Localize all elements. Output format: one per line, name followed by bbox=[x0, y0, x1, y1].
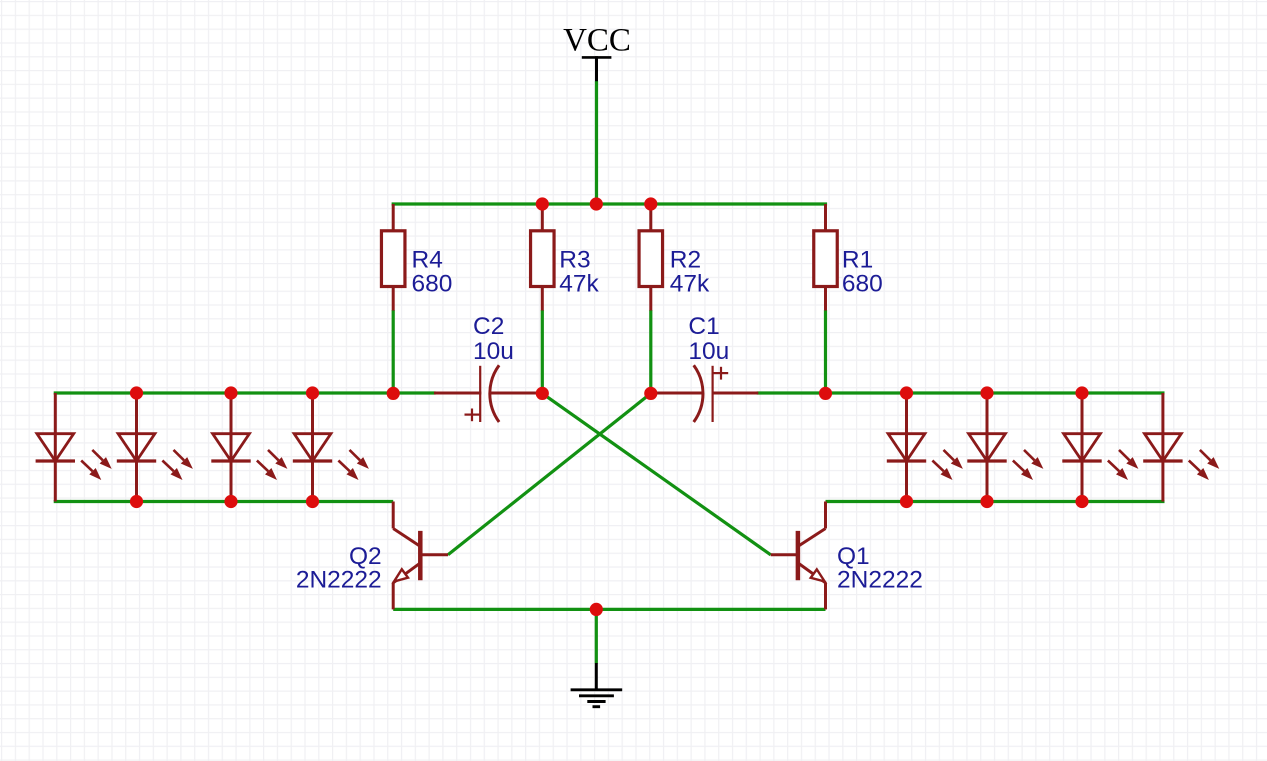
wire cross C1 node to Q2 base bbox=[448, 393, 651, 554]
svg-text:680: 680 bbox=[842, 270, 883, 297]
junction LED3 cathode bbox=[224, 495, 237, 508]
svg-text:10u: 10u bbox=[473, 338, 514, 365]
resistor R1 bbox=[814, 204, 838, 311]
svg-text:47k: 47k bbox=[670, 270, 710, 297]
transistor Q2 bbox=[393, 502, 448, 610]
resistor R3 bbox=[531, 204, 555, 311]
junction top bus at VCC bbox=[590, 197, 603, 210]
wire left LED cathode bus bbox=[54, 500, 394, 503]
wire cross C2 node to Q1 base bbox=[542, 393, 770, 554]
capacitor C1 bbox=[651, 365, 759, 422]
capacitor C2 bbox=[434, 365, 542, 422]
LED 3 bbox=[211, 393, 287, 502]
transistor Q1 bbox=[771, 502, 826, 610]
junction LED7 cathode bbox=[1075, 495, 1088, 508]
LED 2 bbox=[117, 393, 193, 502]
svg-text:VCC: VCC bbox=[563, 23, 631, 59]
wire to ground bbox=[595, 609, 598, 663]
wire top bus bbox=[392, 202, 827, 205]
wire R1 bottom to node bbox=[824, 310, 827, 393]
LED 7 bbox=[1062, 393, 1138, 502]
svg-text:10u: 10u bbox=[688, 338, 729, 365]
svg-text:C2: C2 bbox=[473, 313, 504, 340]
wire R2 bottom to node bbox=[649, 310, 652, 393]
junction LED4 anode bbox=[306, 386, 319, 399]
wire right LED anode bus bbox=[757, 391, 1165, 394]
resistor R2 bbox=[639, 204, 663, 311]
LED 5 bbox=[887, 393, 963, 502]
svg-text:2N2222: 2N2222 bbox=[296, 567, 382, 594]
junction top bus at R2 bbox=[644, 197, 657, 210]
junction LED5 anode bbox=[900, 386, 913, 399]
power VCC bbox=[563, 23, 631, 83]
junction ground node bbox=[590, 603, 603, 616]
LED 1 bbox=[36, 393, 112, 502]
junction top bus at R3 bbox=[536, 197, 549, 210]
LED 4 bbox=[293, 393, 369, 502]
junction LED4 cathode bbox=[306, 495, 319, 508]
junction LED6 cathode bbox=[980, 495, 993, 508]
svg-text:680: 680 bbox=[412, 270, 453, 297]
wire emitter bus bbox=[393, 608, 825, 611]
wire R4 bottom to node bbox=[392, 310, 395, 395]
junction C2 right node bbox=[536, 387, 549, 400]
junction LED7 anode bbox=[1075, 386, 1088, 399]
svg-text:47k: 47k bbox=[559, 270, 599, 297]
wire right LED cathode bus bbox=[826, 500, 1165, 503]
junction R1 node bbox=[819, 387, 832, 400]
wire VCC to top bus bbox=[595, 81, 598, 204]
wire R3 bottom to node bbox=[541, 310, 544, 393]
junction LED6 anode bbox=[980, 386, 993, 399]
LED 6 bbox=[967, 393, 1043, 502]
junction C1 left node bbox=[644, 387, 657, 400]
LED 8 bbox=[1143, 393, 1219, 502]
resistor R4 bbox=[381, 204, 405, 311]
svg-text:2N2222: 2N2222 bbox=[837, 567, 923, 594]
ground bbox=[571, 663, 623, 707]
junction LED5 cathode bbox=[900, 495, 913, 508]
junction LED2 anode bbox=[130, 386, 143, 399]
wire left LED anode bus bbox=[54, 391, 436, 394]
junction LED3 anode bbox=[224, 386, 237, 399]
junction LED2 cathode bbox=[130, 495, 143, 508]
junction R4 node bbox=[387, 387, 400, 400]
svg-text:C1: C1 bbox=[688, 313, 719, 340]
